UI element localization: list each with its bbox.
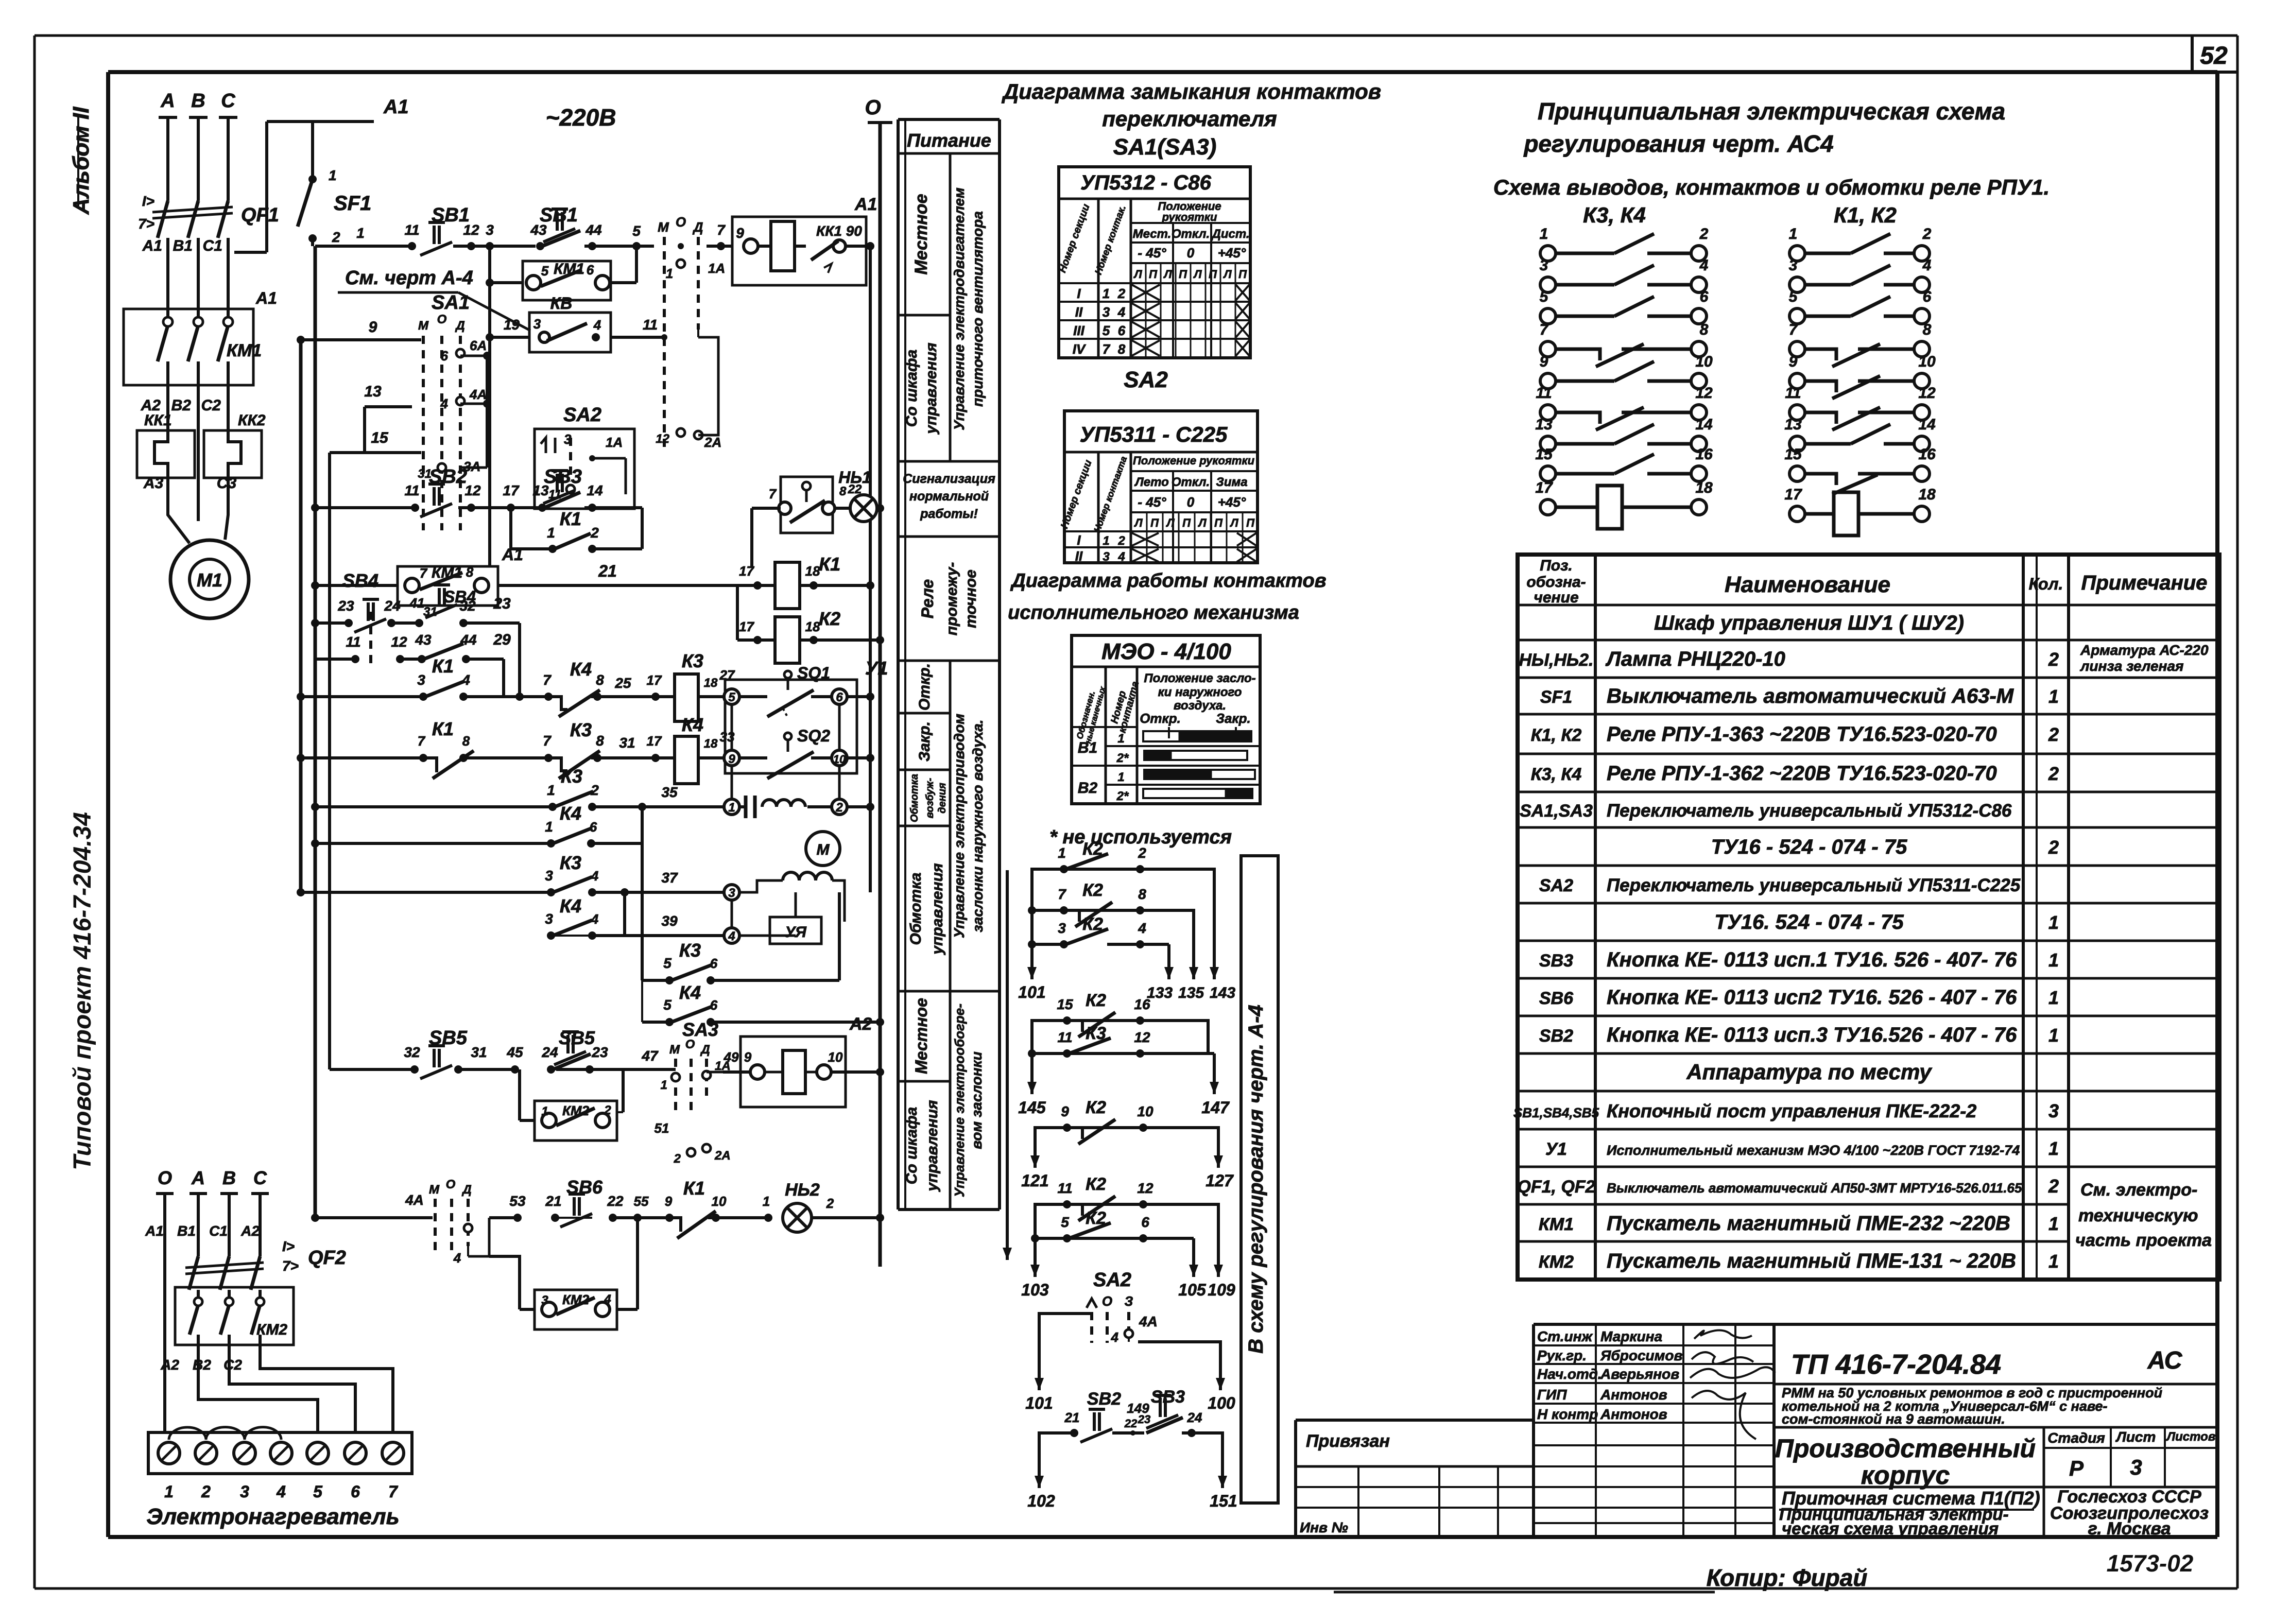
svg-text:14: 14 [1918,416,1936,433]
svg-text:2*: 2* [1116,789,1129,803]
svg-text:В схему регулирования чер: В схему регулирования черт. А-4 [1245,1005,1267,1353]
svg-text:К2: К2 [1086,1098,1106,1117]
svg-text:Ябросимов: Ябросимов [1600,1347,1682,1363]
relay contact pins 7-8 [1789,321,1932,367]
svg-text:линза зеленая: линза зеленая [2079,658,2184,674]
motor M actuator [806,832,840,866]
svg-text:SВ2: SВ2 [1087,1389,1121,1409]
svg-text:11: 11 [404,222,419,238]
svg-text:Антонов: Антонов [1600,1406,1667,1422]
svg-text:НЬ1: НЬ1 [838,468,871,487]
wire SB6 segment [489,1216,518,1219]
svg-text:2: 2 [2048,649,2059,670]
svg-text:Р: Р [2069,1456,2084,1480]
svg-text:5: 5 [1789,288,1798,305]
svg-text:П: П [1214,516,1223,529]
svg-text:25: 25 [614,675,631,691]
svg-text:Дист.: Дист. [1211,227,1249,241]
svg-text:~220В: ~220В [546,104,616,131]
contactor aux box KM2 1-2 [535,1101,617,1141]
limit switch box KB [529,313,611,352]
svg-text:6А: 6А [470,338,487,353]
wire U1 internal 2 [731,766,733,799]
thermal relay KK1 [166,385,169,430]
svg-text:8: 8 [596,733,604,749]
rail wire left C [328,453,331,1069]
wire KM2 to terminal 5 [198,1359,318,1432]
svg-text:100: 100 [1208,1394,1235,1412]
svg-text:1: 1 [545,819,553,835]
svg-text:39: 39 [661,913,678,929]
svg-text:В: В [222,1167,236,1188]
svg-text:6: 6 [1923,288,1932,305]
wire row 31 [297,754,305,762]
svg-text:К2: К2 [1086,1174,1106,1194]
relay contact pins 13-14 [1784,416,1936,452]
terminal 6 [832,689,847,704]
svg-text:Исполнительный механизм МЭО 4/: Исполнительный механизм МЭО 4/100 ~220В … [1607,1143,2020,1158]
pushbutton SB6 [569,1193,585,1196]
svg-text:21: 21 [545,1193,561,1209]
svg-text:3: 3 [1103,304,1110,320]
svg-text:7: 7 [717,222,726,238]
arrows group6 [1038,1433,1041,1488]
svg-text:М: М [817,841,830,858]
svg-text:Мест.: Мест. [1133,227,1172,241]
rail wire left A [299,340,303,892]
svg-text:г. Москва: г. Москва [2088,1519,2171,1539]
svg-text:1: 1 [1789,226,1798,243]
svg-text:Антонов: Антонов [1600,1387,1667,1403]
svg-text:Реле РПУ-1-363 ~220В ТУ16.52: Реле РПУ-1-363 ~220В ТУ16.523-020-70 [1607,723,1997,746]
svg-text:К2: К2 [1086,1208,1106,1228]
svg-text:4: 4 [1117,550,1125,564]
svg-text:Реле: Реле [918,579,937,618]
relay contact pins 17-18 [1784,486,1936,535]
wire HL1 row [752,507,781,510]
svg-text:4: 4 [604,1292,611,1306]
svg-text:12: 12 [1134,1029,1150,1045]
svg-text:8: 8 [466,564,474,580]
svg-text:К1: К1 [683,1178,705,1199]
svg-text:О: О [446,1178,456,1191]
svg-text:8: 8 [1923,321,1932,338]
svg-text:SQ1: SQ1 [797,664,830,682]
svg-text:А1: А1 [142,237,162,254]
svg-text:11: 11 [404,482,419,498]
svg-text:3: 3 [1540,257,1548,274]
svg-text:Со шкафа: Со шкафа [903,1107,920,1184]
svg-text:П: П [1238,268,1247,281]
contact K2 5-6 wire [1035,1237,1194,1240]
svg-text:SВ3: SВ3 [544,466,582,488]
phase B wire to motor [197,385,200,521]
svg-text:5: 5 [663,997,671,1013]
svg-text:QF2: QF2 [308,1247,346,1269]
svg-text:10: 10 [833,753,846,766]
svg-text:Обмотка: Обмотка [907,873,924,945]
svg-text:11: 11 [1057,1029,1072,1045]
wire row 39 [623,892,626,936]
svg-text:16: 16 [1695,446,1713,463]
svg-text:КВ: КВ [550,294,573,313]
relay contact pins 17-18 [1535,479,1713,529]
svg-text:часть проекта: часть проекта [2075,1231,2212,1250]
svg-text:Выключатель автоматический А6: Выключатель автоматический А63-М [1607,685,2014,707]
svg-text:+45°: +45° [1218,494,1246,510]
svg-text:SВ5: SВ5 [429,1027,468,1049]
svg-text:6: 6 [351,1482,360,1501]
svg-text:управления: управления [929,863,946,956]
svg-text:7: 7 [420,565,428,581]
svg-text:127: 127 [1206,1171,1234,1190]
svg-text:SВ6: SВ6 [566,1177,603,1198]
svg-text:8: 8 [839,485,847,498]
wire 21 [498,584,752,587]
contact K1 1-2 [509,508,512,549]
svg-text:В2: В2 [171,397,192,414]
svg-text:52: 52 [2200,42,2228,70]
svg-text:К1: К1 [432,718,454,739]
left margin text: album [68,107,94,215]
svg-text:Закр.: Закр. [916,721,933,762]
svg-text:А2: А2 [240,1223,260,1239]
svg-text:управления: управления [924,1100,941,1193]
svg-text:11: 11 [1057,1180,1072,1196]
terminal 4 [724,928,739,943]
svg-text:SF1: SF1 [334,192,371,215]
title block signature table [1534,1323,1774,1326]
svg-text:I>: I> [142,193,154,209]
svg-text:К2: К2 [1082,914,1103,934]
svg-text:SВ5: SВ5 [559,1027,595,1048]
svg-text:исполнительного механизма: исполнительного механизма [1008,602,1299,624]
function table grid [897,119,900,1210]
svg-text:3: 3 [1103,550,1110,564]
svg-text:1: 1 [1103,534,1109,548]
svg-text:точное: точное [962,569,979,628]
svg-text:12: 12 [1695,385,1713,402]
svg-text:Д: Д [693,219,703,235]
svg-text:4: 4 [1922,257,1932,274]
svg-text:Л: Л [1229,516,1238,529]
limit switch box SQ1 [781,477,833,533]
pushbutton SB2 [411,504,419,512]
svg-text:М: М [418,319,429,333]
svg-text:Н контр: Н контр [1537,1406,1598,1422]
svg-text:6: 6 [1118,323,1126,338]
svg-text:18: 18 [805,619,820,634]
svg-text:2: 2 [1699,226,1709,243]
svg-text:К2: К2 [819,608,840,629]
contact K3 1-2 [548,803,557,811]
svg-text:29: 29 [493,631,511,648]
svg-text:К1, К2: К1, К2 [1834,203,1897,227]
terminal 9 [724,750,739,766]
svg-text:чение: чение [1534,589,1578,606]
svg-text:15: 15 [1535,446,1553,463]
svg-text:управления: управления [923,342,940,435]
svg-text:15: 15 [1784,446,1802,463]
svg-text:КМ2: КМ2 [1539,1252,1574,1272]
svg-text:11: 11 [346,634,360,650]
svg-text:7: 7 [769,486,777,502]
svg-text:17: 17 [503,482,520,498]
svg-text:А3: А3 [143,475,164,492]
svg-text:12: 12 [656,432,669,446]
svg-text:П: П [1150,516,1159,529]
svg-text:Откл.: Откл. [1172,475,1210,489]
svg-text:II: II [1075,548,1083,564]
svg-text:А: А [191,1167,205,1188]
svg-text:10: 10 [828,1049,843,1065]
svg-text:К4: К4 [560,803,581,824]
svg-text:4: 4 [591,868,599,884]
page number box 52 [2192,36,2237,72]
terminal 5 [724,689,739,704]
svg-text:С: С [253,1167,267,1188]
svg-text:1: 1 [1117,770,1124,784]
svg-text:15: 15 [371,429,389,446]
svg-text:10: 10 [1137,1103,1153,1119]
contact K3 11-12 wire [1032,1052,1214,1055]
svg-text:13: 13 [364,383,382,400]
svg-text:3: 3 [541,1293,548,1307]
svg-text:17: 17 [647,733,662,749]
svg-text:1: 1 [728,801,735,815]
title block main box [1774,1323,2217,1326]
coil KM1 [758,245,771,248]
switch SF1 [311,122,314,179]
coil UYa box [770,917,821,944]
svg-text:1573-02: 1573-02 [2107,1550,2194,1577]
svg-text:101: 101 [1025,1394,1053,1412]
svg-text:1: 1 [666,266,673,281]
svg-text:3: 3 [1789,257,1798,274]
svg-text:14: 14 [587,482,603,498]
terminal 2 [832,799,847,815]
svg-text:35: 35 [661,784,678,800]
svg-text:техническую: техническую [2078,1206,2198,1225]
svg-text:9: 9 [1061,1103,1069,1119]
svg-text:IV: IV [1073,341,1087,357]
svg-text:1: 1 [2048,949,2059,971]
wire row SB6 [311,1214,319,1222]
svg-text:4А: 4А [469,387,487,402]
parts table rows [1513,612,2212,1272]
relay contact pins 9-10 [1789,353,1936,399]
relay contact pins 13-14 [1535,416,1713,452]
wire row 9 [301,338,421,341]
svg-text:дения: дения [937,783,948,814]
svg-text:4: 4 [591,911,599,927]
svg-text:6: 6 [590,819,597,835]
contact K4 1-6 [311,839,319,848]
svg-text:1: 1 [547,782,555,798]
svg-text:23: 23 [337,598,354,614]
svg-text:6: 6 [441,348,449,364]
svg-text:4: 4 [461,672,470,688]
svg-text:Л: Л [1163,268,1172,281]
wire row SB4 [311,619,319,627]
relay coil K4 [651,754,660,762]
wire feed rail [1006,870,1009,1260]
svg-text:заслонки наружного воздуха.: заслонки наружного воздуха. [970,719,986,932]
svg-text:2*: 2* [1116,751,1129,765]
svg-text:53: 53 [509,1193,526,1209]
svg-text:22: 22 [607,1193,624,1209]
svg-text:А1: А1 [854,195,877,214]
svg-text:2: 2 [2048,724,2059,745]
svg-text:ГИП: ГИП [1537,1387,1567,1403]
table MEO bar row1 [1143,731,1251,741]
svg-text:К2: К2 [1082,839,1103,859]
svg-text:К4: К4 [679,982,701,1003]
contactor aux box KM1 5-6 [523,261,611,300]
wire KM2 to terminal 7 [260,1359,393,1432]
svg-text:6: 6 [1700,288,1709,305]
svg-text:23: 23 [1138,1413,1150,1426]
contactor KM1 main contacts [124,309,253,385]
svg-text:2: 2 [590,782,599,798]
wire row 35 [311,803,319,811]
svg-text:151: 151 [1210,1492,1237,1510]
svg-text:SВ4: SВ4 [342,570,378,591]
svg-text:4: 4 [1699,257,1709,274]
svg-text:4: 4 [1138,920,1146,936]
relay contact pins 5-6 [1789,288,1932,324]
svg-text:1: 1 [1540,226,1548,243]
contact SB5 no [547,1065,555,1074]
svg-text:1: 1 [2048,686,2059,707]
svg-text:К3: К3 [561,766,582,787]
svg-text:ТУ16. 524 - 074 - 75: ТУ16. 524 - 074 - 75 [1714,911,1904,934]
svg-text:16: 16 [1134,996,1150,1012]
svg-text:переключателя: переключателя [1102,107,1277,131]
svg-text:Со шкафа: Со шкафа [903,350,920,427]
svg-text:1: 1 [541,1104,548,1118]
svg-text:О: О [1102,1293,1112,1309]
svg-text:УЯ: УЯ [785,924,807,941]
svg-text:41: 41 [409,595,425,611]
svg-text:3: 3 [728,886,735,900]
table MEO bar row2 [1144,751,1247,760]
contact SB1 no [536,242,544,250]
svg-text:12: 12 [391,634,407,650]
svg-text:2: 2 [2048,1176,2059,1197]
svg-text:8: 8 [1700,321,1709,338]
svg-text:С2: С2 [223,1357,242,1373]
svg-text:+45°: +45° [1218,245,1246,261]
svg-text:К4: К4 [560,895,581,917]
svg-text:1: 1 [2048,1138,2059,1159]
svg-text:Электронагреватель: Электронагреватель [146,1504,399,1529]
contact K1 3-4 [419,693,427,701]
svg-text:31: 31 [471,1044,487,1060]
svg-text:6: 6 [587,262,594,278]
svg-text:К1: К1 [819,554,840,575]
svg-text:О: О [158,1167,172,1188]
wire U1 internal [731,704,733,750]
svg-text:А2: А2 [849,1014,872,1034]
svg-text:12: 12 [464,482,481,498]
thermal relay KK2 [227,385,230,430]
svg-text:промежу-: промежу- [943,562,960,636]
svg-text:Питание: Питание [907,130,991,151]
svg-text:7>: 7> [138,216,154,232]
svg-text:В1: В1 [1078,739,1097,756]
svg-text:103: 103 [1021,1281,1049,1299]
svg-text:К3, К4: К3, К4 [1583,203,1646,227]
svg-text:В1: В1 [173,237,193,254]
relay contact pins 7-8 [1540,321,1709,367]
svg-text:24: 24 [1187,1410,1202,1425]
svg-text:8: 8 [596,672,604,688]
svg-text:А1: А1 [502,545,523,564]
svg-text:4: 4 [1111,1329,1119,1345]
svg-text:4: 4 [1117,304,1126,320]
svg-text:18: 18 [805,563,820,579]
svg-text:47: 47 [641,1048,659,1064]
svg-text:ТУ16 - 524 - 074 - 75: ТУ16 - 524 - 074 - 75 [1711,836,1907,858]
svg-text:23: 23 [591,1044,608,1060]
svg-text:К1: К1 [560,508,581,529]
svg-text:Нач.отд.: Нач.отд. [1537,1366,1602,1382]
svg-text:31: 31 [619,735,635,751]
svg-text:121: 121 [1021,1171,1048,1190]
svg-text:1: 1 [547,525,555,541]
svg-text:Пускатель магнитный ПМЕ-131: Пускатель магнитный ПМЕ-131 ~ 220В [1607,1250,2016,1272]
svg-text:5: 5 [728,690,735,704]
svg-text:5: 5 [1540,288,1549,305]
svg-text:Положение засло-: Положение засло- [1144,671,1255,685]
svg-text:43: 43 [415,632,432,648]
svg-text:Примечание: Примечание [2081,572,2208,594]
svg-text:корпус: корпус [1861,1461,1950,1490]
svg-text:2: 2 [201,1482,211,1501]
svg-text:Л: Л [1197,516,1207,529]
svg-text:КК2: КК2 [238,412,266,429]
svg-text:17: 17 [1535,479,1553,496]
svg-text:18: 18 [1695,479,1713,496]
svg-text:Д: Д [700,1043,710,1057]
svg-text:Д: Д [455,319,464,333]
svg-text:9: 9 [1540,353,1548,370]
svg-text:102: 102 [1027,1492,1055,1510]
svg-text:7: 7 [388,1482,399,1501]
pushbutton SB1 [408,242,416,250]
relay contact pins 15-16 [1784,446,1936,494]
circuit breaker QF2 [189,1256,198,1290]
svg-text:К3: К3 [682,650,703,671]
svg-text:SQ2: SQ2 [797,727,830,745]
wire QF1 outputs [166,238,169,318]
svg-text:Местное: Местное [912,998,931,1074]
svg-text:УП5312 - С86: УП5312 - С86 [1080,171,1212,194]
svg-text:НЬ2: НЬ2 [785,1180,820,1200]
wire row 37 [297,888,305,896]
svg-text:109: 109 [1208,1281,1235,1299]
circuit breaker QF1 [158,201,168,238]
actuator box U1 [725,680,857,773]
svg-text:Инв №: Инв № [1300,1519,1348,1535]
svg-text:См. электро-: См. электро- [2080,1180,2197,1200]
svg-text:- 45°: - 45° [1138,494,1166,510]
svg-text:145: 145 [1018,1098,1046,1117]
wire row 27 [297,693,305,701]
svg-text:24: 24 [541,1044,558,1060]
svg-text:П: П [1179,268,1187,281]
